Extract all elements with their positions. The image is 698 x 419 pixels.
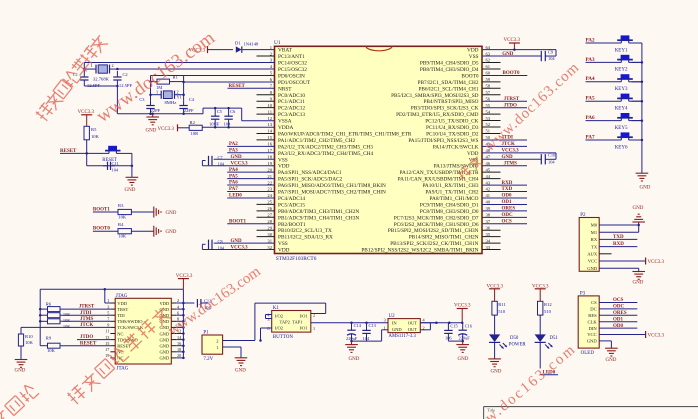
- wire key common rail: [641, 43, 644, 173]
- svg-text:R4: R4: [118, 222, 124, 227]
- svg-text:15: 15: [105, 341, 109, 346]
- U1 pin 3 (PC14/OSC32): [270, 58, 307, 67]
- svg-text:10UF: 10UF: [209, 121, 220, 126]
- svg-text:58: 58: [486, 84, 491, 89]
- crystal Y2 32.768K: [84, 63, 117, 82]
- wire P2 GND pin: [599, 268, 639, 271]
- power label VCC3.3 (analog supply): [158, 124, 190, 132]
- svg-text:VCC3.3: VCC3.3: [502, 149, 520, 154]
- resistor R5 10K: [84, 126, 100, 153]
- U1 pin 25 (PC5/ADC15): [257, 200, 306, 209]
- U1 pin 47 (VSS): [469, 154, 491, 163]
- wire VSSA (to U1 pin 12): [203, 107, 275, 121]
- wire OCS (U1 pin 37): [482, 220, 527, 225]
- IC U1 STM32F103RCT6 body: [274, 40, 482, 254]
- svg-text:104: 104: [112, 168, 119, 173]
- svg-text:51: 51: [486, 129, 491, 134]
- svg-text:61: 61: [486, 64, 491, 69]
- svg-text:PB11/I2C2_SDA/U3_RX: PB11/I2C2_SDA/U3_RX: [278, 235, 333, 241]
- U1 pin 9 (PC1/ADC11): [257, 96, 306, 105]
- svg-text:8MHz: 8MHz: [165, 100, 177, 105]
- svg-text:GND: GND: [458, 357, 469, 362]
- capacitor C4 22PF: [179, 97, 194, 114]
- svg-text:60: 60: [486, 71, 491, 76]
- net label PA7 (key 6 input): [586, 134, 642, 140]
- svg-text:32.768K: 32.768K: [93, 77, 110, 82]
- U1 pin 40 (PC9/TIM8_CH4/SDIO_D1): [420, 200, 491, 209]
- svg-text:33: 33: [486, 245, 491, 250]
- capacitor C6 104: [224, 108, 237, 127]
- svg-text:PA9/U1_TX/TIM1_CH2: PA9/U1_TX/TIM1_CH2: [425, 190, 478, 196]
- svg-text:GND: GND: [159, 344, 169, 349]
- wire crystal ground rail: [117, 113, 203, 116]
- svg-text:VCC3.3: VCC3.3: [648, 260, 665, 265]
- svg-text:M0: M0: [591, 223, 598, 228]
- wire K1 output to regulator input rail: [311, 321, 437, 324]
- svg-text:1N4148: 1N4148: [244, 42, 260, 47]
- svg-text:OD0: OD0: [502, 194, 513, 199]
- wire TCK with net label JTCK: [21, 323, 110, 328]
- svg-text:R5: R5: [91, 127, 97, 132]
- svg-text:C9: C9: [548, 49, 554, 54]
- connector P2 (radio module) body: [579, 213, 599, 271]
- svg-text:RX: RX: [591, 237, 598, 242]
- net label PA6 (key 5 input): [586, 115, 642, 121]
- svg-text:P2: P2: [580, 213, 586, 218]
- svg-text:KEY3: KEY3: [615, 87, 628, 92]
- svg-text:PA6: PA6: [229, 181, 238, 186]
- svg-text:PB10/I2C2_SCL/U3_TX: PB10/I2C2_SCL/U3_TX: [278, 228, 332, 234]
- U1 pin 57 (PB5/I2C1_SMBA/SPI3_MOSI/I2S3_SD): [391, 90, 500, 99]
- svg-text:7.2V: 7.2V: [203, 357, 213, 362]
- capacitor C14 220uF (input bulk): [346, 323, 362, 341]
- connector JTAG (20-pin) body: [105, 294, 182, 372]
- svg-text:JTMS: JTMS: [80, 317, 94, 322]
- push button KEY5: [615, 113, 642, 131]
- svg-text:NRST: NRST: [278, 86, 292, 92]
- svg-text:VCC: VCC: [588, 259, 597, 264]
- svg-text:R10: R10: [25, 334, 33, 339]
- U1 pin 14 (PA0/WKUP/ADC0/TIM2_CH1_ETR/TIM5_CH1/TIM8_ETR): [257, 129, 412, 138]
- wire input cap ground rail: [350, 340, 381, 343]
- svg-text:27: 27: [267, 213, 272, 218]
- ground GND (power LED): [488, 359, 501, 375]
- svg-text:GND: GND: [231, 155, 243, 160]
- U1 pin 48 (VDD): [467, 148, 491, 157]
- svg-text:I/O1: I/O1: [299, 313, 307, 318]
- U1 pin 7 (NRST): [270, 84, 293, 93]
- U1 pin 42 (PA9/U1_TX/TIM1_CH2): [425, 187, 490, 196]
- svg-text:13: 13: [267, 122, 272, 127]
- svg-text:106: 106: [445, 336, 452, 341]
- svg-text:19: 19: [267, 161, 272, 166]
- svg-text:CS: CS: [591, 300, 597, 305]
- svg-text:C15: C15: [450, 323, 458, 328]
- svg-text:TMS/SWDIO: TMS/SWDIO: [117, 319, 143, 324]
- svg-text:R6: R6: [46, 301, 52, 306]
- svg-text:64: 64: [486, 45, 491, 50]
- svg-text:VSS: VSS: [278, 241, 288, 247]
- svg-text:22PF: 22PF: [151, 108, 161, 113]
- push button KEY2: [615, 55, 642, 73]
- push button KEY1: [615, 35, 642, 53]
- svg-text:15: 15: [267, 135, 272, 140]
- svg-text:GND: GND: [587, 266, 598, 271]
- wire P2 RX with net label TXD: [599, 235, 637, 240]
- svg-text:K1: K1: [273, 306, 280, 311]
- svg-text:7: 7: [107, 317, 109, 322]
- svg-text:VSS: VSS: [469, 54, 479, 60]
- svg-text:2: 2: [216, 338, 218, 343]
- wire P3 CLK with net label OD1: [599, 317, 637, 322]
- U1 pin 54 (PD2/TIM3_ETR/U5_RX/SDIO_CMD): [396, 109, 500, 118]
- svg-text:C13: C13: [369, 323, 377, 328]
- resistor R6 10K (TRST pull): [40, 301, 110, 317]
- svg-text:GND: GND: [502, 155, 514, 160]
- svg-text:PB6/I2C1_SCL/TIM4_CH1: PB6/I2C1_SCL/TIM4_CH1: [418, 86, 478, 92]
- svg-text:VDDA: VDDA: [278, 125, 293, 131]
- ground GND (reset): [125, 153, 139, 192]
- U1 pin 28 (PB2/BOOT1): [267, 219, 306, 228]
- U1 pin 49 (PA14/JTCK/SWCLK): [433, 142, 491, 151]
- svg-text:C16: C16: [465, 323, 473, 328]
- svg-text:NC: NC: [117, 331, 123, 336]
- ground GND (BOOT0 pulldown): [154, 226, 177, 237]
- U1 pin 61 (PB8/TIM4_CH3/SDIO_D4): [420, 64, 501, 73]
- svg-text:VDD: VDD: [278, 164, 290, 170]
- svg-text:3: 3: [107, 304, 109, 309]
- svg-text:GND: GND: [166, 211, 177, 216]
- svg-text:PB2/BOOT1: PB2/BOOT1: [278, 222, 306, 228]
- svg-text:C7: C7: [218, 155, 224, 160]
- U1 pin 2 (PC13/ANT1): [257, 51, 306, 60]
- svg-text:6: 6: [177, 310, 179, 315]
- svg-text:PC3/ADC13: PC3/ADC13: [278, 112, 305, 118]
- svg-text:16: 16: [267, 142, 272, 147]
- U1 pin 8 (PC0/ADC10): [257, 90, 306, 99]
- U1 pin 19 (VDD): [267, 161, 289, 170]
- net label BOOT1 with resistor R3 10K to GND: [93, 203, 154, 220]
- wire JTCK (U1 pin 49): [482, 142, 527, 147]
- wire P3 GND pin: [599, 341, 611, 348]
- ground GND (crystal rail): [146, 114, 160, 134]
- svg-text:59: 59: [486, 77, 491, 82]
- resistor R2 10R: [189, 120, 202, 136]
- svg-text:GND: GND: [231, 239, 243, 244]
- svg-text:10K: 10K: [118, 215, 127, 220]
- svg-text:DC: DC: [590, 307, 596, 312]
- wire TXD (U1 pin 42): [482, 187, 527, 192]
- svg-text:29: 29: [267, 225, 272, 230]
- wire U2 output rail: [420, 321, 462, 329]
- svg-text:510: 510: [544, 309, 552, 314]
- U1 pin 59 (PB7/I2C1_SDA/TIM4_CH2): [418, 77, 501, 86]
- svg-text:POWER: POWER: [509, 343, 527, 348]
- wire P1 pin 1 to ground: [223, 347, 241, 358]
- svg-text:VDD: VDD: [159, 301, 169, 306]
- svg-text:47: 47: [486, 154, 491, 159]
- svg-text:PC8/TIM8_CH3/SDIO_D0: PC8/TIM8_CH3/SDIO_D0: [420, 209, 479, 215]
- U1 pin 6 (PD1/OSCOUT): [270, 77, 311, 86]
- U1 pin 15 (PA1/ADC1/TIM2_CH2/TIM5_CH2): [257, 135, 356, 144]
- svg-text:R3: R3: [118, 203, 124, 208]
- svg-text:1: 1: [216, 345, 218, 350]
- wire TDO with net label JTDO: [77, 335, 110, 340]
- wire JTAG pull-up bus: [39, 289, 42, 345]
- svg-text:JTRST: JTRST: [504, 97, 520, 102]
- wire K1 loop (power routing): [255, 303, 326, 342]
- push button RESET (K2): [87, 146, 132, 163]
- svg-text:104: 104: [363, 336, 370, 341]
- U1 pin 43 (PA10/U1_RX/TIM1_CH3): [422, 180, 490, 189]
- svg-text:VCC3.3: VCC3.3: [504, 38, 521, 43]
- svg-text:VCC3.3: VCC3.3: [231, 162, 249, 167]
- svg-text:ORES: ORES: [502, 207, 516, 212]
- wire BOOT0 (U1 pin 60): [482, 71, 527, 76]
- wire crystal caps to ground rail: [84, 85, 118, 114]
- capacitor C3 22PF: [139, 97, 160, 114]
- svg-text:PA3/U2_RX/ADC3/TIM2_CH4/TIM5_C: PA3/U2_RX/ADC3/TIM2_CH4/TIM5_CH4: [278, 151, 374, 157]
- resistor R9 10K (RESET pull): [40, 335, 110, 353]
- svg-text:10K: 10K: [25, 340, 34, 345]
- svg-text:PC2/ADC12: PC2/ADC12: [278, 106, 305, 112]
- wire JTAG right-side rail: [176, 289, 184, 359]
- U1 pin 4 (PC15/OSC32): [270, 64, 307, 73]
- svg-text:10R: 10R: [191, 131, 200, 136]
- wire PA5 (U1 pin 21): [227, 174, 274, 179]
- wire ODC (U1 pin 38): [482, 213, 527, 218]
- svg-text:PA7: PA7: [229, 187, 238, 192]
- U1 pin 55 (PB3/TDO/SPI3_SCK/I2S3_CK): [411, 103, 491, 112]
- svg-text:PB3/TDO/SPI3_SCK/I2S3_CK: PB3/TDO/SPI3_SCK/I2S3_CK: [411, 106, 479, 112]
- svg-text:104: 104: [548, 56, 555, 61]
- svg-text:ODC: ODC: [502, 213, 514, 218]
- wire P3 DIN with net label OD0: [599, 324, 637, 329]
- svg-text:PA14/JTCK/SWCLK: PA14/JTCK/SWCLK: [433, 144, 479, 150]
- svg-text:37: 37: [486, 219, 491, 224]
- svg-text:19: 19: [105, 353, 109, 358]
- svg-text:104: 104: [548, 159, 555, 164]
- svg-text:3: 3: [384, 317, 386, 322]
- svg-text:54: 54: [486, 109, 491, 114]
- power VCC3.3 (LED0): [532, 285, 549, 302]
- connector P1 (7.2V power in): [202, 331, 223, 362]
- capacitor C9 104 (VDD decoupling): [541, 49, 556, 61]
- U1 pin 63 (VSS): [469, 51, 491, 60]
- wire D1 to U1 pin 1: [243, 49, 275, 51]
- power label VCC3.3 (VBAT feed): [189, 46, 234, 53]
- wire JTDO (U1 pin 55): [482, 103, 527, 108]
- svg-text:RES: RES: [588, 313, 597, 318]
- svg-text:GND: GND: [392, 327, 402, 332]
- svg-text:57: 57: [486, 90, 491, 95]
- svg-text:AUX: AUX: [587, 252, 598, 257]
- svg-text:OCS: OCS: [613, 298, 624, 303]
- capacitor C5 10UF: [209, 108, 223, 127]
- svg-text:D1: D1: [235, 41, 241, 46]
- svg-text:VCC3.3: VCC3.3: [158, 127, 175, 132]
- svg-text:JTDO: JTDO: [80, 335, 93, 340]
- U1 pin 34 (PB13/SPI2_SCK/I2S2_CK/TIM1_CH1N): [390, 238, 500, 247]
- LED D51: [535, 334, 559, 368]
- U1 pin 62 (PB9/TIM4_CH4/SDIO_D5): [420, 58, 501, 67]
- svg-text:JTRST: JTRST: [79, 305, 95, 310]
- wire VSS pin 63 with net label GND: [482, 52, 541, 57]
- svg-text:R11: R11: [498, 302, 506, 307]
- svg-text:BOOT0: BOOT0: [461, 73, 478, 79]
- svg-text:AMS1117-3.3: AMS1117-3.3: [389, 334, 417, 339]
- svg-text:1: 1: [107, 298, 109, 303]
- svg-text:GND: GND: [125, 188, 136, 193]
- U1 pin 24 (PC4/ADC14): [267, 193, 305, 202]
- svg-text:1: 1: [313, 326, 315, 331]
- U1 pin 26 (PB0/ADC8/TIM3_CH3/TIM1_CH2N): [257, 206, 360, 215]
- svg-text:10: 10: [267, 103, 272, 108]
- U1 pin 53 (PC12/U5_TX/SDIO_CK): [425, 116, 500, 125]
- svg-text:KEY5: KEY5: [615, 126, 628, 131]
- svg-text:18: 18: [267, 154, 272, 159]
- svg-text:PC6/I2S2_MCK/TIM8_CH1/SDIO_D6: PC6/I2S2_MCK/TIM8_CH1/SDIO_D6: [394, 222, 479, 228]
- svg-text:PA7/SPI1_MOSI/ADC7/TIM3_CH2/TI: PA7/SPI1_MOSI/ADC7/TIM3_CH2/TIM8_CHIN: [278, 190, 386, 196]
- svg-text:GND: GND: [491, 370, 502, 375]
- resistor R12 510: [538, 301, 553, 334]
- svg-text:16: 16: [177, 341, 181, 346]
- U1 pin 38 (PC7/I2S3_MCK/TIM8_CH2/SDIO_D7): [394, 213, 491, 222]
- net label RESET (reset node): [60, 149, 88, 155]
- wire VDDA (to U1 pin 13): [202, 126, 274, 129]
- svg-text:TAP1: TAP1: [292, 319, 302, 324]
- U1 pin 60 (BOOT0): [461, 71, 490, 80]
- svg-text:GND: GND: [235, 369, 246, 374]
- svg-text:35: 35: [486, 232, 491, 237]
- svg-text:VDD: VDD: [117, 301, 127, 306]
- svg-text:M1: M1: [591, 230, 598, 235]
- svg-text:PC12/U5_TX/SDIO_CK: PC12/U5_TX/SDIO_CK: [425, 119, 478, 125]
- U1 part number label STM32F103RCT6: [276, 256, 317, 262]
- svg-text:VBAT: VBAT: [278, 48, 293, 54]
- svg-text:31: 31: [267, 238, 272, 243]
- power VCC3.3 (U1 pin 64 VDD): [482, 38, 556, 51]
- svg-text:24: 24: [267, 193, 272, 198]
- svg-text:C4: C4: [189, 97, 195, 102]
- svg-text:21: 21: [267, 174, 272, 179]
- wire P3 RES with net label ORES: [599, 311, 637, 316]
- svg-text:PD2/TIM3_ETR/U5_RX/SDIO_CMD: PD2/TIM3_ETR/U5_RX/SDIO_CMD: [396, 112, 479, 118]
- svg-text:10K: 10K: [118, 234, 127, 239]
- U1 pin 27 (PB1/ADC9/TIM3_CH4/TIM1_CH3N): [257, 213, 360, 222]
- svg-text:41: 41: [486, 193, 491, 198]
- svg-text:11: 11: [268, 109, 273, 114]
- net label BOOT0 with resistor R4 10K to GND: [93, 222, 154, 239]
- wire P1 pin 2 to power switch: [223, 340, 255, 342]
- svg-text:GND: GND: [166, 230, 177, 235]
- svg-text:VCC3.3: VCC3.3: [454, 304, 471, 309]
- svg-text:TXD: TXD: [502, 187, 513, 192]
- power VCC3.3 (power LED): [487, 285, 504, 302]
- svg-text:14: 14: [267, 129, 272, 134]
- svg-text:PB9/TIM4_CH4/SDIO_D5: PB9/TIM4_CH4/SDIO_D5: [420, 61, 479, 67]
- svg-text:62: 62: [486, 58, 491, 63]
- svg-text:P1: P1: [203, 331, 209, 336]
- svg-text:OD1: OD1: [613, 317, 624, 322]
- svg-text:PB13/SPI2_SCK/I2S2_CK/TIM1_CH1: PB13/SPI2_SCK/I2S2_CK/TIM1_CH1N: [390, 241, 478, 247]
- svg-text:PA5/SPI1_SCK/ADC5/DAC2: PA5/SPI1_SCK/ADC5/DAC2: [278, 177, 343, 183]
- svg-text:3: 3: [267, 317, 269, 322]
- svg-text:39: 39: [486, 206, 491, 211]
- svg-text:25: 25: [267, 200, 272, 205]
- svg-text:BUTTON: BUTTON: [273, 335, 294, 340]
- svg-text:32: 32: [267, 245, 272, 250]
- svg-text:JTCK: JTCK: [80, 323, 93, 328]
- switch K1 BUTTON body: [267, 306, 315, 340]
- capacitor C12 104 (JTAG decoupling): [183, 299, 211, 310]
- wire OSCOUT (to U1 pin 6): [184, 76, 275, 101]
- svg-text:17: 17: [105, 347, 109, 352]
- svg-text:VCC3.3: VCC3.3: [231, 246, 249, 251]
- svg-text:38: 38: [486, 213, 491, 218]
- svg-text:I/O2: I/O2: [275, 313, 283, 318]
- svg-text:RXD: RXD: [613, 242, 624, 247]
- svg-text:13: 13: [105, 335, 109, 340]
- svg-text:OUT: OUT: [408, 320, 417, 325]
- svg-text:GND: GND: [146, 129, 157, 134]
- svg-text:PA2/U2_TX/ADC2/TIM2_CH3/TIM5_C: PA2/U2_TX/ADC2/TIM2_CH3/TIM5_CH3: [278, 144, 373, 150]
- svg-text:PB0/ADC8/TIM3_CH3/TIM1_CH2N: PB0/ADC8/TIM3_CH3/TIM1_CH2N: [278, 209, 359, 215]
- ground GND (P2 M0 M1): [632, 206, 645, 222]
- net label LED0 (to U1 PC4): [540, 370, 558, 375]
- svg-text:PA3: PA3: [586, 57, 596, 63]
- svg-text:KEY4: KEY4: [615, 107, 628, 112]
- svg-text:20: 20: [267, 167, 272, 172]
- svg-text:2: 2: [112, 63, 114, 68]
- svg-text:JTAG: JTAG: [116, 294, 128, 299]
- svg-text:JTAG: JTAG: [117, 366, 129, 371]
- U1 pin 21 (PA5/SPI1_SCK/ADC5/DAC2): [267, 174, 342, 183]
- U1 pin 36 (PB15/SPI2_MOSI/I2S2_SD/TIM1_CH3N): [388, 225, 501, 234]
- svg-text:CLK: CLK: [588, 319, 598, 324]
- watermark red diagonal Chinese glyph right (partial): [456, 165, 472, 181]
- svg-text:PA3: PA3: [229, 149, 238, 154]
- ground GND (keys): [636, 173, 651, 190]
- svg-text:JTMS: JTMS: [504, 161, 518, 166]
- power label VCC3.3 (P2): [599, 258, 664, 265]
- capacitor C15 106 (output): [444, 323, 458, 341]
- svg-text:PC0/ADC10: PC0/ADC10: [278, 93, 305, 99]
- net label JTMS: [80, 317, 94, 322]
- U1 pin 23 (PA7/SPI1_MOSI/ADC7/TIM3_CH2/TIM8_CHIN): [267, 187, 386, 196]
- svg-text:KEY6: KEY6: [615, 145, 628, 150]
- svg-text:20: 20: [177, 353, 181, 358]
- svg-text:TX: TX: [591, 244, 598, 249]
- svg-text:510: 510: [498, 309, 506, 314]
- net label PA5 (key 4 input): [586, 96, 642, 102]
- svg-text:PB4/NTRST/SPI3_MISO: PB4/NTRST/SPI3_MISO: [423, 99, 478, 105]
- U1 pin 50 (PA15/JTDI/SPI3_NSS/I2S3_WS): [408, 135, 490, 144]
- svg-text:JTDO: JTDO: [504, 103, 517, 108]
- wire LED0 (U1 pin 24): [227, 194, 274, 199]
- wire JTRST (U1 pin 56): [482, 97, 527, 102]
- svg-text:PC4/ADC14: PC4/ADC14: [278, 196, 305, 202]
- svg-text:PB15/SPI2_MOSI/I2S2_SD/TIM1_CH: PB15/SPI2_MOSI/I2S2_SD/TIM1_CH3N: [388, 228, 479, 234]
- svg-text:U2: U2: [389, 314, 396, 319]
- watermark red diagonal Chinese glyphs top-left: [34, 102, 55, 123]
- wire VDD pin 48 with net label VCC3.3: [482, 149, 556, 154]
- svg-text:55: 55: [486, 103, 491, 108]
- svg-text:OD0: OD0: [613, 324, 624, 329]
- svg-text:12: 12: [267, 116, 272, 121]
- net label PA2 (key 1 input): [586, 37, 642, 43]
- U1 pin 1 (VBAT): [270, 45, 293, 54]
